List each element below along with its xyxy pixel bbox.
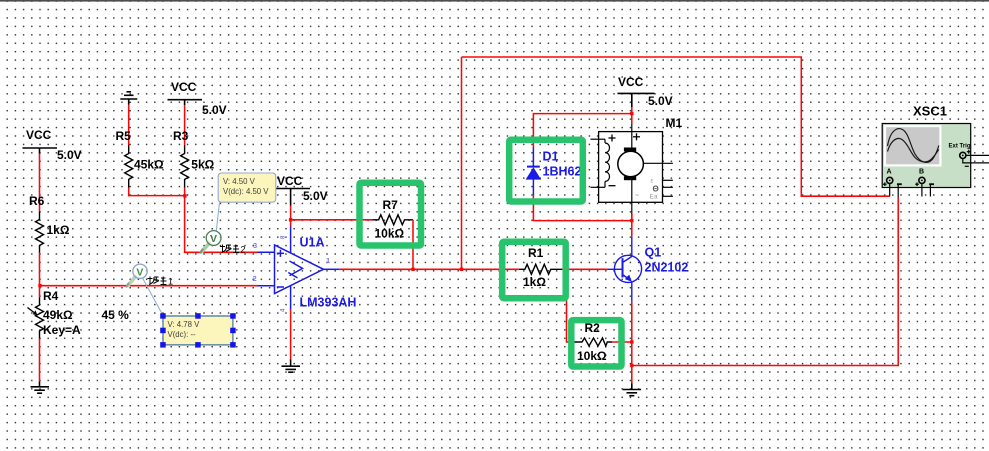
svg-text:5.0V: 5.0V [648,94,673,108]
shaft line [643,162,673,164]
channel A terminal [887,177,893,183]
svg-text:VCC: VCC [277,174,303,188]
node (R5/R3 divider junction) [183,194,186,197]
wire opamp output [339,268,519,270]
svg-text:M1: M1 [666,116,683,130]
wire node to opamp non-inverting input [185,196,258,253]
wire R1 to Q1 base [562,268,608,270]
wire R6 to node [39,253,41,286]
ground (left) [31,382,50,394]
wire ground to R5 [128,105,130,146]
probe 1 [127,264,148,287]
svg-text:Ea: Ea [650,194,658,201]
svg-text:VCC: VCC [618,75,644,89]
wire node to opamp inverting input [40,285,258,287]
power VCC (R3) [168,100,203,105]
wire D1 top branch [533,114,631,148]
svg-text:2N2102: 2N2102 [645,261,689,275]
svg-text:45kΩ: 45kΩ [134,158,164,172]
node (VCC/D1 top junction) [630,112,633,115]
resistor R1 [519,264,562,274]
wire VCC to motor [631,107,633,124]
svg-text:U1A: U1A [300,236,325,250]
svg-text:V: 4.50 V: V: 4.50 V [223,177,256,186]
wire R3 to node [184,188,186,196]
node (junction at R6/R4 divider) [38,284,41,287]
wire R5 to node [129,188,185,196]
svg-text:B: B [919,169,924,176]
ground (top, flipped) [120,92,137,105]
svg-text:1: 1 [168,277,173,287]
svg-text:V: V [210,233,217,245]
wire VCC to opamp/R7 node [290,206,292,227]
wire R1 node down to R2 [567,269,575,342]
wire top rail [462,57,890,196]
svg-text:5.0V: 5.0V [303,189,328,203]
svg-text:1kΩ: 1kΩ [47,223,70,237]
ground (op-amp) [282,360,301,373]
svg-text:ε: ε [651,178,654,185]
svg-text:VCC: VCC [26,128,52,142]
svg-text:R1: R1 [528,246,544,260]
svg-text:~: ~ [635,193,639,200]
waveform traces [888,129,939,163]
svg-text:V(dc): --: V(dc): -- [168,330,197,339]
resistor R6 [36,212,44,253]
armature [618,151,644,177]
svg-text:10kΩ: 10kΩ [375,227,405,241]
top window edge [0,0,989,2]
svg-text:2: 2 [241,245,246,255]
plus/minus marks [609,133,641,185]
wire motor bottom pin [631,214,633,221]
wire VCC to R3 [184,105,186,145]
tooltip2 V:4.78V (selected) [163,316,233,345]
highlight box R1 [502,242,566,299]
right pins [663,179,673,181]
svg-text:Ext Trig: Ext Trig [949,144,971,150]
node (emitter/scope junction) [630,364,633,367]
svg-text:2: 2 [253,274,257,283]
svg-text:5.0V: 5.0V [57,148,82,162]
display screen [885,126,940,165]
svg-text:5.0V: 5.0V [202,103,227,117]
node (D1 bottom/collector junction) [630,219,633,222]
wire collector to motor [631,214,633,236]
ground (emitter) [623,384,642,396]
node (R1 right / R2 branch junction) [565,268,568,271]
wire VCC to R6 [39,154,41,212]
node (VCC/R7 junction) [289,218,292,221]
resistor R5 [125,145,133,188]
svg-text:R4: R4 [43,289,59,303]
svg-text:R6: R6 [29,194,45,208]
resistor R7 [373,215,414,225]
svg-text:Θ: Θ [653,185,659,194]
terminal pin stubs [889,184,891,197]
svg-text:A: A [887,169,892,176]
svg-text:10kΩ: 10kΩ [577,349,607,363]
wire scope A- long run [632,197,898,366]
highlight box D1 [509,140,583,202]
highlight box R2 [571,320,621,366]
power VCC (left) [23,148,58,154]
node (top-rail/output junction) [460,268,463,271]
resistor R2 [574,338,612,346]
svg-text:V: 4.78 V: V: 4.78 V [168,320,201,329]
node (R7/output junction) [411,268,414,271]
callout leader (tooltip1 to probe2) [216,202,219,231]
potentiometer R4 [39,286,41,298]
label 探针2 (drawn strokes) [220,245,239,253]
wire node to R7 left [291,219,373,221]
channel B terminal [919,177,925,183]
svg-text:49kΩ: 49kΩ [43,308,73,322]
svg-text:VCC: VCC [171,80,197,94]
svg-text:R5: R5 [116,129,132,143]
svg-text:5kΩ: 5kΩ [191,158,214,172]
svg-text:D1: D1 [543,150,559,164]
callout leader (probe1 to tooltip2) [143,278,164,316]
svg-text:1: 1 [326,256,330,265]
svg-text:45 %: 45 % [102,308,130,322]
diode D1 (flyback) [527,148,540,196]
resistor R3 [181,145,189,188]
wire R4 to ground [39,339,41,382]
field coil [605,139,610,187]
svg-text:R3: R3 [173,129,189,143]
svg-text:1kΩ: 1kΩ [523,275,546,289]
svg-text:1BH62: 1BH62 [543,165,582,179]
svg-text:XSC1: XSC1 [913,104,947,119]
wire D1 bottom branch [533,196,631,221]
wire R2 to emitter column [612,341,632,343]
svg-text:Q1: Q1 [645,246,662,260]
node (R2/emitter junction) [630,340,633,343]
svg-text:3: 3 [253,241,257,250]
bottom pin from brush [631,180,633,214]
svg-text:LM393AH: LM393AH [300,296,357,310]
svg-text:R7: R7 [383,198,399,212]
highlight box R7 [360,183,422,246]
top pin into brush [631,124,633,148]
left field pins [591,138,606,140]
svg-text:V(dc): 4.50 V: V(dc): 4.50 V [223,187,269,196]
selection handles [160,313,236,347]
wire R7 right down to output row [412,220,414,269]
svg-text:V: V [136,266,143,278]
wire emitter down [631,302,633,384]
tooltip1 V:4.50V [218,173,276,202]
wire opamp gnd pin [290,310,292,360]
svg-text:Key=A: Key=A [43,323,81,337]
probe 2 [201,231,222,253]
label 探针1 (drawn strokes) [148,277,167,285]
